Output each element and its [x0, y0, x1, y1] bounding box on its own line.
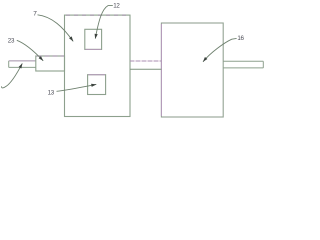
leader line for 13	[57, 84, 97, 91]
leader line for 12	[95, 6, 113, 39]
box 16 (right housing rectangle)	[161, 23, 223, 117]
leader line for 16	[203, 38, 237, 61]
arrowhead of unlabeled leader	[19, 63, 24, 69]
svg-text:7: 7	[33, 10, 37, 17]
svg-text:16: 16	[237, 35, 244, 42]
svg-text:23: 23	[8, 37, 15, 44]
unlabeled leader pointing to left rod	[2, 63, 23, 87]
box 7 (left housing rectangle)	[65, 15, 131, 116]
svg-text:12: 12	[113, 2, 120, 9]
square 13 (lower inner square)	[88, 75, 106, 95]
square 12 (upper inner square)	[85, 29, 102, 49]
svg-text:13: 13	[48, 89, 55, 96]
coupling block on left shaft	[36, 56, 65, 71]
middle connecting shaft between housings	[130, 61, 161, 69]
leader line for 7	[38, 15, 74, 42]
shaft 23 (left thin input rod)	[9, 61, 36, 68]
arrowhead of leader 12	[94, 34, 98, 40]
arrowhead of leader 23	[39, 56, 45, 62]
arrowhead of leader 7	[69, 36, 75, 42]
arrowhead of leader 13	[91, 83, 97, 87]
right output shaft	[223, 61, 263, 68]
arrowhead of leader 16	[202, 57, 208, 63]
leader line for 23	[17, 40, 43, 61]
